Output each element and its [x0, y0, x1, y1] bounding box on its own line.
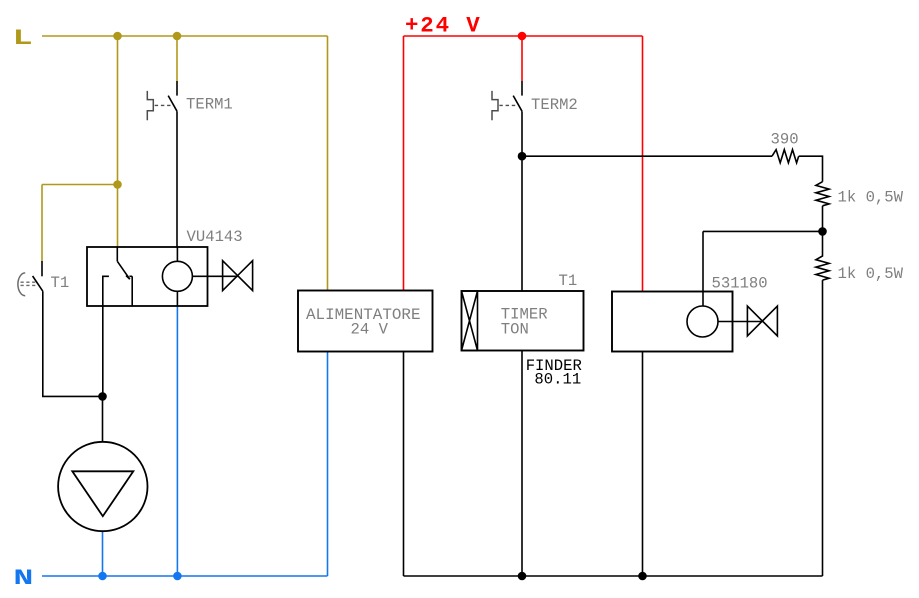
wire blue from pump bottom: [102, 531, 104, 576]
svg-text:1k 0,5W: 1k 0,5W: [838, 189, 904, 207]
wire junction to pump: [102, 396, 104, 442]
wire TIMER bottom: [521, 351, 523, 577]
resistor R2 1k 0,5W: [816, 231, 829, 280]
thermal element TERM2: [492, 91, 498, 120]
wire olive horizontal to T1 branch: [42, 184, 118, 186]
junction L3: [113, 180, 122, 189]
junction TERM2 / resistor net: [518, 152, 527, 161]
junction N1: [98, 572, 107, 581]
svg-text:TON: TON: [501, 321, 529, 339]
svg-text:T1: T1: [51, 274, 70, 292]
box TIMER T1: [462, 291, 584, 351]
box VU4143: [87, 247, 208, 306]
svg-text:TERM2: TERM2: [531, 96, 578, 114]
valve bowtie 531180: [747, 306, 777, 336]
resistor R1 1k 0,5W: [816, 182, 829, 206]
wire blue from VU4143 bottom: [176, 306, 178, 576]
coil circle VU4143: [162, 261, 192, 291]
wire T1 to pump junction: [42, 395, 103, 397]
wire +24V rail horizontal: [404, 35, 643, 37]
svg-text:390: 390: [771, 130, 799, 148]
bottom black rail: [404, 575, 823, 577]
wire +24V down to 531180 box: [642, 36, 644, 292]
actuator arc T1: [18, 273, 25, 296]
switch TERM1: [168, 81, 177, 247]
wire olive stub above TERM1: [176, 36, 178, 81]
junction resistor divider: [818, 227, 827, 236]
wire L rail corner down to ALIMENTATORE: [327, 36, 329, 291]
pump M1 circle: [58, 442, 147, 531]
wire L rail horizontal: [42, 35, 328, 37]
wire +24V down to ALIMENTATORE: [403, 36, 405, 291]
contact inside VU4143: [117, 247, 132, 306]
svg-text:T1: T1: [559, 272, 578, 290]
wire coil to valve: [192, 275, 237, 277]
junction bottom TIMER: [518, 572, 527, 581]
wire junction to 531180 coil: [703, 230, 823, 232]
wire coil to box bottom: [176, 291, 178, 306]
wire ALIMENTATORE black output: [403, 352, 405, 577]
junction L1: [113, 32, 122, 41]
pump M1 triangle: [72, 471, 133, 516]
thermal element TERM1: [147, 91, 153, 120]
switch T1: [33, 261, 43, 396]
dashed actuator link TERM1: [155, 104, 172, 106]
wire N rail horizontal: [42, 575, 328, 577]
terminal bracket VU4143: [103, 276, 109, 396]
svg-text:1k 0,5W: 1k 0,5W: [838, 265, 904, 283]
wire R2 down to bottom rail: [822, 280, 824, 576]
wire 531180 bottom: [642, 352, 644, 577]
dashed link T1 upper: [21, 281, 38, 283]
box 531180: [612, 292, 733, 352]
wire olive down to T1 contact: [41, 185, 43, 262]
wire olive branch down from L1: [117, 36, 119, 185]
wire TERM1 to coil: [176, 247, 178, 261]
coil X-box TIMER: [462, 291, 478, 351]
valve bowtie VU4143: [223, 261, 253, 291]
svg-text:VU4143: VU4143: [187, 228, 243, 246]
resistor 390: [772, 150, 799, 163]
svg-text:N: N: [13, 566, 33, 591]
box ALIMENTATORE: [298, 291, 433, 352]
coil circle 531180: [687, 306, 718, 337]
svg-text:TERM1: TERM1: [186, 95, 233, 113]
junction +24V: [518, 32, 527, 41]
junction N2: [173, 572, 182, 581]
wire R1 to junction: [822, 206, 824, 232]
wire to resistor 390: [522, 155, 772, 157]
wire red stub above TERM2: [521, 36, 523, 81]
svg-text:L: L: [13, 26, 33, 51]
wire 390 to corner: [799, 156, 823, 182]
dashed actuator link TERM2: [499, 104, 516, 106]
svg-text:531180: 531180: [712, 275, 768, 293]
wire olive down to VU4143 box: [117, 185, 119, 248]
wire N riser from ALIMENTATORE: [327, 352, 329, 577]
svg-text:24 V: 24 V: [351, 321, 389, 339]
junction pump: [98, 392, 107, 401]
wire down into 531180 coil: [702, 231, 704, 306]
svg-text:80.11: 80.11: [534, 371, 581, 389]
dashed link T1 lower: [21, 284, 38, 286]
svg-text:+24 V: +24 V: [405, 14, 482, 39]
wire coil to valve 531180: [718, 321, 762, 323]
junction bottom 531180: [638, 572, 647, 581]
switch TERM2: [513, 81, 522, 291]
junction L2: [173, 32, 182, 41]
